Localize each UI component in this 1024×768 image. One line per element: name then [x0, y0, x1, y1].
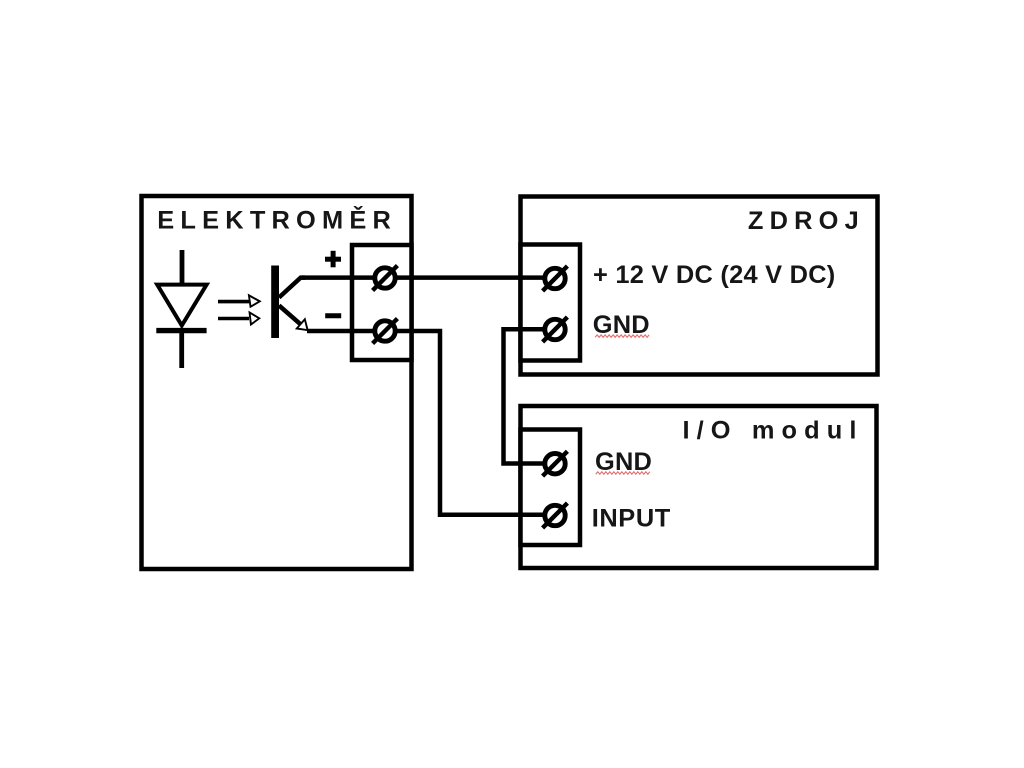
wire + : opto collector to ZDROJ +12V terminal: [302, 275, 555, 280]
light arrow 2: [218, 311, 261, 327]
wire - : opto emitter terminal to I/O INPUT terminal: [307, 331, 555, 515]
spellcheck squiggle under GND (I/O): [596, 472, 650, 474]
svg-text:ZDROJ: ZDROJ: [748, 207, 865, 235]
terminal block in I/O modul: [521, 430, 581, 546]
svg-text:I/O modul: I/O modul: [683, 416, 864, 444]
terminal block in ZDROJ: [521, 245, 581, 361]
svg-text:INPUT: INPUT: [592, 505, 671, 533]
box ZDROJ (power supply enclosure): [521, 197, 878, 375]
svg-text:GND: GND: [595, 448, 652, 476]
screw terminal E2 (-): [373, 319, 398, 344]
spellcheck squiggle under GND (ZDROJ): [595, 335, 649, 337]
screw terminal E1 (+): [373, 266, 398, 291]
LED D1 cathode bar: [156, 328, 206, 333]
minus polarity mark: [325, 313, 341, 318]
plus polarity mark: [325, 251, 341, 267]
box I/O modul enclosure: [521, 406, 877, 568]
screw terminal Z1 (+12V): [543, 266, 568, 291]
phototransistor Q1 collector lead: [279, 278, 305, 298]
box ELEKTROMER (meter enclosure): [142, 196, 412, 569]
screw terminal IO2 (INPUT): [543, 503, 568, 528]
light arrow 1: [218, 294, 262, 309]
screw terminal IO1 (GND): [543, 451, 568, 476]
LED D1 triangle: [157, 285, 206, 326]
phototransistor Q1 base bar: [271, 266, 279, 339]
LED D1 cathode lead: [179, 331, 184, 368]
wire GND : ZDROJ GND terminal to I/O GND terminal: [504, 329, 556, 463]
svg-text:+ 12 V DC (24 V DC): + 12 V DC (24 V DC): [593, 261, 836, 289]
svg-text:ELEKTROMĚR: ELEKTROMĚR: [157, 205, 397, 235]
terminal block in ELEKTROMER: [352, 245, 412, 360]
LED D1 anode lead: [180, 250, 185, 284]
screw terminal Z2 (GND): [543, 317, 568, 342]
phototransistor Q1 emitter with arrow: [279, 306, 301, 325]
